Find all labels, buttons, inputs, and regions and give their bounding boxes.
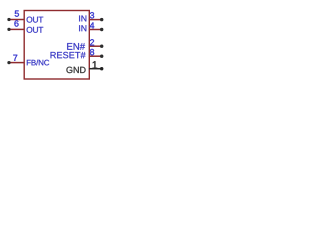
pin 4 dot — [100, 28, 103, 31]
pin 8 number — [90, 49, 94, 55]
IC body U1 — [24, 11, 89, 80]
pin 3 wire — [89, 19, 102, 21]
pin 8 dot — [100, 55, 103, 58]
pin 5 name OUT — [27, 17, 44, 23]
pin 5 number — [15, 11, 19, 17]
pin 6 dot — [7, 28, 10, 31]
pin 2 dot — [100, 45, 103, 48]
pin 8 name RESET# — [51, 52, 86, 58]
pin 7 dot — [7, 61, 10, 64]
pin 2 name EN# — [67, 43, 85, 50]
pin 8 wire — [89, 55, 102, 57]
pin 5 dot — [7, 18, 10, 21]
pin 7 number — [13, 55, 17, 61]
pin 3 name IN — [79, 15, 86, 21]
pin 1 dot — [100, 67, 103, 70]
pin 2 number — [90, 39, 94, 45]
pin 3 dot — [100, 18, 103, 21]
pin 5 wire — [9, 19, 24, 21]
pin 6 number — [14, 20, 18, 26]
pin 7 name FB/NC — [27, 60, 49, 66]
pin 4 wire — [89, 29, 102, 31]
pin 1 name GND — [66, 67, 85, 73]
pin 4 number — [90, 22, 94, 28]
pin 1 number — [93, 61, 98, 68]
pin 2 wire — [89, 45, 102, 47]
pin 4 name IN — [79, 25, 86, 31]
pin 1 wire — [89, 68, 102, 70]
pin 7 wire — [9, 62, 24, 64]
pin 3 number — [90, 12, 94, 18]
pin 6 wire — [9, 28, 24, 30]
pin 6 name OUT — [27, 27, 44, 33]
